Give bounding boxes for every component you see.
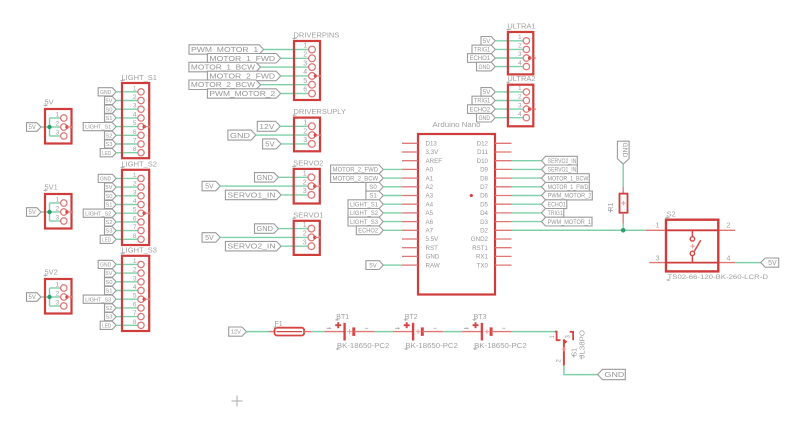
junction at P5V pin 2 bbox=[47, 125, 51, 129]
net flag PWM_MOTOR_2 at DRIVERPINS pin 6 bbox=[207, 89, 280, 98]
svg-text:S1: S1 bbox=[105, 289, 112, 295]
net flag MOTOR_2_BCW at DRIVERPINS pin 5 bbox=[189, 80, 261, 90]
wire GND to SERVO1 pin 1 bbox=[279, 228, 309, 230]
wires to LIGHT_S1 bbox=[116, 92, 138, 153]
wire Arduino D6 to PWM_MOTOR_2 bbox=[512, 195, 542, 197]
svg-text:4: 4 bbox=[727, 256, 731, 263]
svg-text:2: 2 bbox=[518, 43, 522, 50]
svg-text:1: 1 bbox=[656, 222, 660, 229]
svg-text:SERVO2: SERVO2 bbox=[293, 158, 323, 167]
svg-text:TRIG1: TRIG1 bbox=[474, 47, 491, 54]
svg-text:ECHO1: ECHO1 bbox=[548, 201, 567, 208]
net flag S3 at LIGHT_S2 pin 7 bbox=[105, 227, 117, 235]
net flag S1 at LIGHT_S1 pin 4 bbox=[105, 114, 117, 122]
net flag 5V at LIGHT_S3 pin 2 bbox=[105, 269, 117, 277]
junction at P5V2 pin 2 bbox=[47, 295, 51, 299]
connector P5V (5V) bbox=[44, 98, 74, 144]
svg-text:2: 2 bbox=[133, 267, 137, 274]
svg-text:8: 8 bbox=[133, 146, 137, 153]
net flag S2 at LIGHT_S1 pin 6 bbox=[105, 131, 117, 139]
net flag S2 at LIGHT_S3 pin 6 bbox=[105, 304, 117, 312]
net flag S0 at LIGHT_S1 pin 3 bbox=[105, 105, 117, 113]
svg-text:3: 3 bbox=[303, 188, 307, 195]
svg-text:LIGHT_S2: LIGHT_S2 bbox=[122, 160, 157, 169]
svg-text:D10: D10 bbox=[477, 158, 489, 165]
svg-text:S1: S1 bbox=[369, 193, 377, 200]
svg-text:5V2: 5V2 bbox=[45, 268, 58, 277]
svg-text:MOTOR_1_BCW: MOTOR_1_BCW bbox=[191, 65, 256, 72]
wire R1 to node A bbox=[622, 213, 624, 231]
svg-text:5V: 5V bbox=[483, 38, 491, 45]
wire BT1 to BT2 bbox=[375, 331, 393, 333]
svg-text:3: 3 bbox=[303, 239, 307, 246]
connector ULTRA2 bbox=[506, 74, 536, 126]
svg-text:1: 1 bbox=[133, 258, 137, 265]
svg-text:S2: S2 bbox=[667, 210, 676, 219]
svg-text:MOTOR_2_BCW: MOTOR_2_BCW bbox=[191, 82, 256, 89]
net flag MOTOR_2_FWD at DRIVERPINS pin 4 bbox=[207, 71, 280, 81]
svg-text:S3: S3 bbox=[105, 315, 112, 321]
net flag 5V at LIGHT_S2 pin 2 bbox=[105, 183, 117, 191]
svg-text:GND: GND bbox=[100, 177, 111, 183]
net flag GND at ULTRA2 pin 4 bbox=[477, 113, 496, 122]
net flag 5V at SERVO2 pin 2 bbox=[202, 181, 220, 191]
svg-text:LIGHT_S1: LIGHT_S1 bbox=[122, 73, 157, 82]
wire F1 to BT1 bbox=[311, 331, 325, 333]
net flag S1 at LIGHT_S3 pin 4 bbox=[105, 286, 117, 294]
battery BT3 (BK-18650-PC2) bbox=[462, 314, 527, 350]
svg-text:5V: 5V bbox=[45, 98, 54, 107]
svg-text:MOTOR_2_BCW: MOTOR_2_BCW bbox=[333, 175, 379, 182]
svg-text:LIGHT_S1: LIGHT_S1 bbox=[350, 201, 379, 208]
svg-text:3: 3 bbox=[133, 103, 137, 110]
svg-text:JL38PO: JL38PO bbox=[579, 329, 586, 358]
connector DRIVERSUPLY bbox=[293, 107, 346, 151]
net flag LIGHT_S3 at LIGHT_S3 pin 5 bbox=[83, 295, 116, 303]
net flag S3 at LIGHT_S3 pin 7 bbox=[105, 313, 117, 321]
net flag GND at LIGHT_S2 pin 1 bbox=[98, 174, 116, 182]
svg-text:S0: S0 bbox=[105, 107, 112, 113]
svg-text:D11: D11 bbox=[477, 149, 488, 156]
net flag S0 at LIGHT_S2 pin 3 bbox=[105, 192, 117, 200]
svg-text:SERVO1_IN: SERVO1_IN bbox=[548, 167, 577, 174]
svg-text:2: 2 bbox=[303, 128, 307, 135]
net flag TRIG1 at ULTRA2 pin 2 bbox=[472, 96, 495, 105]
power flag 5V for P5V1 bbox=[27, 208, 42, 217]
svg-text:ECHO1: ECHO1 bbox=[469, 55, 490, 62]
svg-text:GND: GND bbox=[605, 372, 625, 379]
svg-text:3: 3 bbox=[303, 60, 307, 67]
svg-text:5V: 5V bbox=[265, 140, 274, 149]
wire ECHO2 to ULTRA2 pin 3 bbox=[495, 108, 523, 110]
net flag PWM_MOTOR_1 at DRIVERPINS pin 1 bbox=[189, 45, 264, 54]
svg-text:7: 7 bbox=[133, 138, 137, 145]
svg-text:GND: GND bbox=[621, 142, 628, 157]
svg-text:TX0: TX0 bbox=[477, 262, 489, 269]
svg-text:D3: D3 bbox=[480, 219, 488, 226]
svg-text:2: 2 bbox=[56, 121, 60, 128]
svg-text:S2: S2 bbox=[105, 306, 112, 312]
svg-text:5.5V: 5.5V bbox=[426, 236, 440, 243]
svg-text:3: 3 bbox=[56, 215, 60, 222]
wire TRIG1 to ULTRA1 pin 2 bbox=[495, 48, 523, 50]
svg-text:RX1: RX1 bbox=[476, 254, 489, 261]
svg-text:1: 1 bbox=[303, 171, 307, 178]
svg-text:3: 3 bbox=[133, 189, 137, 196]
svg-text:BT3: BT3 bbox=[474, 314, 487, 321]
net flag ECHO2 at ULTRA2 pin 3 bbox=[468, 105, 496, 114]
svg-text:S0: S0 bbox=[369, 184, 377, 191]
wire LIGHT_S2 to Arduino A5 bbox=[383, 212, 402, 214]
svg-text:S2: S2 bbox=[105, 133, 112, 139]
connector ULTRA1 bbox=[506, 22, 536, 75]
svg-text:3: 3 bbox=[56, 130, 60, 137]
net flag LED at LIGHT_S3 pin 8 bbox=[100, 321, 116, 329]
wire 5V to Arduino RAW bbox=[383, 264, 402, 266]
svg-text:ULTRA2: ULTRA2 bbox=[507, 74, 535, 83]
net flag SERVO2_IN at SERVO1 pin 3 bbox=[225, 241, 281, 251]
wire GND to resistor R1 bbox=[622, 164, 624, 193]
svg-text:S2: S2 bbox=[105, 220, 112, 226]
net flag MOTOR_1_BCW at DRIVERPINS pin 3 bbox=[189, 62, 261, 72]
svg-text:LED: LED bbox=[102, 323, 111, 329]
wire Arduino D7 to MOTOR_1_FWD bbox=[512, 186, 542, 188]
net flag TRIG1 at ULTRA1 pin 2 bbox=[472, 45, 495, 54]
svg-text:TRIG1: TRIG1 bbox=[548, 210, 564, 217]
wire MOTOR_1_FWD to DRIVERPINS pin 2 bbox=[281, 57, 309, 59]
svg-text:5V: 5V bbox=[205, 235, 214, 242]
wire Arduino D5 to ECHO1 bbox=[512, 203, 542, 205]
svg-text:7: 7 bbox=[133, 310, 137, 317]
svg-text:SERVO2_IN: SERVO2_IN bbox=[227, 244, 275, 251]
svg-text:TRIG1: TRIG1 bbox=[474, 98, 491, 105]
svg-text:TS02-66-120-BK-260-LCR-D: TS02-66-120-BK-260-LCR-D bbox=[668, 274, 769, 281]
net flag MOTOR_1_FWD at Arduino D7 bbox=[541, 182, 589, 191]
svg-text:5V: 5V bbox=[105, 271, 112, 277]
svg-text:12V: 12V bbox=[259, 122, 274, 131]
svg-text:MOTOR_1_FWD: MOTOR_1_FWD bbox=[548, 184, 589, 191]
wire 12V to fuse F1 bbox=[247, 331, 270, 333]
svg-text:5V: 5V bbox=[105, 99, 112, 105]
svg-text:4: 4 bbox=[518, 111, 522, 118]
svg-text:GND: GND bbox=[230, 131, 251, 140]
net flag LIGHT_S2 at LIGHT_S2 pin 5 bbox=[83, 209, 116, 217]
svg-text:DRIVERPINS: DRIVERPINS bbox=[294, 31, 340, 40]
svg-text:LED: LED bbox=[102, 237, 111, 243]
svg-text:D6: D6 bbox=[480, 193, 488, 200]
svg-text:GND: GND bbox=[257, 175, 273, 182]
svg-text:3: 3 bbox=[656, 256, 660, 263]
svg-text:A6: A6 bbox=[426, 219, 434, 226]
wire Arduino D8 to MOTOR_1_BCW bbox=[512, 177, 542, 179]
wire Arduino D2 to node A bbox=[512, 229, 647, 231]
net flag GND at SERVO1 pin 1 bbox=[255, 224, 279, 234]
resistor R1 bbox=[608, 194, 628, 213]
svg-text:3: 3 bbox=[56, 300, 60, 307]
wire S0 to Arduino A2 bbox=[383, 186, 402, 188]
wire PWM_MOTOR_2 to DRIVERPINS pin 6 bbox=[281, 93, 309, 95]
net flag SERVO1_IN at Arduino D9 bbox=[541, 165, 577, 174]
svg-text:8: 8 bbox=[133, 319, 137, 326]
wire LIGHT_S3 to Arduino A6 bbox=[383, 221, 402, 223]
svg-text:4: 4 bbox=[518, 60, 522, 67]
connector LIGHT_S2 bbox=[121, 160, 157, 245]
svg-text:4: 4 bbox=[133, 111, 137, 118]
svg-text:S0: S0 bbox=[105, 280, 112, 286]
wires to LIGHT_S3 bbox=[116, 264, 138, 325]
svg-text:SERVO1: SERVO1 bbox=[293, 210, 323, 219]
wire MOTOR_1_BCW to DRIVERPINS pin 3 bbox=[261, 66, 309, 68]
svg-text:D8: D8 bbox=[480, 175, 488, 182]
net flag LIGHT_S1 at LIGHT_S1 pin 5 bbox=[83, 123, 116, 131]
net flag ECHO1 at Arduino D5 bbox=[541, 200, 566, 209]
net flag 5V at LIGHT_S1 pin 2 bbox=[105, 96, 117, 104]
svg-text:D9: D9 bbox=[480, 167, 488, 174]
wire 12V to DRIVERSUPLY pin 1 bbox=[280, 125, 308, 127]
svg-text:LED: LED bbox=[102, 151, 111, 157]
svg-text:2: 2 bbox=[303, 179, 307, 186]
wire SERVO2_IN to SERVO1 pin 3 bbox=[281, 245, 308, 247]
wire PWM_MOTOR_1 to DRIVERPINS pin 1 bbox=[264, 49, 309, 51]
net flag SERVO2_IN at Arduino D10 bbox=[541, 156, 577, 165]
svg-text:1: 1 bbox=[518, 34, 522, 41]
svg-text:5: 5 bbox=[133, 120, 137, 127]
net flag PWM_MOTOR_2 at Arduino D6 bbox=[541, 191, 592, 200]
net flag LIGHT_S3 at Arduino A6 bbox=[348, 217, 383, 226]
wire ECHO2 to Arduino A7 bbox=[383, 229, 402, 231]
svg-text:4: 4 bbox=[303, 69, 307, 76]
svg-text:5V: 5V bbox=[205, 184, 214, 191]
wire 5V to ULTRA2 pin 1 bbox=[495, 91, 523, 93]
net flag PWM_MOTOR_1 at Arduino D3 bbox=[541, 217, 592, 226]
svg-text:5: 5 bbox=[133, 293, 137, 300]
svg-text:S3: S3 bbox=[105, 229, 112, 235]
wires to LIGHT_S2 bbox=[116, 178, 138, 239]
wire BT3 to switch S1 bbox=[512, 331, 555, 333]
net flag S0 at LIGHT_S3 pin 3 bbox=[105, 278, 117, 286]
op-amp U1 Arduino Nano bbox=[402, 120, 512, 295]
wires to P5V1 bbox=[41, 203, 61, 221]
svg-text:BT2: BT2 bbox=[405, 314, 418, 321]
svg-text:LIGHT_S3: LIGHT_S3 bbox=[122, 246, 157, 255]
svg-text:SERVO1_IN: SERVO1_IN bbox=[227, 192, 275, 199]
connector SERVO2 bbox=[292, 158, 323, 203]
wire 5V to DRIVERSUPLY pin 3 bbox=[281, 143, 309, 145]
svg-text:LIGHT_S2: LIGHT_S2 bbox=[85, 211, 111, 217]
connector P5V1 (5V1) bbox=[44, 183, 74, 229]
power flag 5V for P5V2 bbox=[27, 293, 42, 302]
svg-text:2: 2 bbox=[727, 222, 731, 229]
wire ECHO1 to ULTRA1 pin 3 bbox=[495, 57, 523, 59]
wire GND to DRIVERSUPLY pin 2 bbox=[256, 134, 309, 136]
svg-text:A4: A4 bbox=[426, 201, 434, 208]
svg-text:GND: GND bbox=[100, 90, 111, 96]
net flag 5V at SERVO1 pin 2 bbox=[202, 233, 220, 243]
net flag GND at LIGHT_S3 pin 1 bbox=[98, 260, 116, 268]
svg-text:S1: S1 bbox=[571, 348, 578, 357]
svg-text:5V: 5V bbox=[105, 185, 112, 191]
svg-text:7: 7 bbox=[133, 224, 137, 231]
svg-text:D5: D5 bbox=[480, 201, 488, 208]
svg-text:6: 6 bbox=[133, 301, 137, 308]
svg-text:2: 2 bbox=[133, 181, 137, 188]
net flag S0 at Arduino A2 bbox=[366, 182, 383, 191]
svg-text:MOTOR_2_FWD: MOTOR_2_FWD bbox=[209, 73, 275, 80]
net flag LIGHT_S1 at Arduino A4 bbox=[348, 200, 383, 209]
svg-text:RAW: RAW bbox=[426, 262, 440, 269]
svg-text:GND: GND bbox=[257, 226, 273, 233]
svg-text:2: 2 bbox=[56, 206, 60, 213]
junction node A (D2 net) bbox=[621, 228, 626, 233]
svg-text:BK-18650-PC2: BK-18650-PC2 bbox=[405, 343, 458, 350]
svg-text:5V: 5V bbox=[483, 89, 491, 96]
svg-text:1: 1 bbox=[303, 43, 307, 50]
svg-text:ULTRA1: ULTRA1 bbox=[507, 22, 535, 31]
svg-text:12V: 12V bbox=[231, 330, 242, 336]
svg-text:GND: GND bbox=[426, 254, 440, 261]
power flag 5V at S2 pin 4 bbox=[761, 258, 779, 267]
net flag MOTOR_2_BCW at Arduino A1 bbox=[331, 174, 384, 183]
svg-text:2: 2 bbox=[518, 94, 522, 101]
svg-text:GND2: GND2 bbox=[471, 236, 489, 243]
net flag MOTOR_1_FWD at DRIVERPINS pin 2 bbox=[207, 54, 280, 64]
wire Arduino D3 to PWM_MOTOR_1 bbox=[512, 221, 542, 223]
wire S1 pin 2 to GND bbox=[564, 366, 598, 375]
svg-text:5V: 5V bbox=[29, 210, 36, 216]
svg-text:BK-18650-PC2: BK-18650-PC2 bbox=[474, 343, 527, 350]
net flag S1 at LIGHT_S2 pin 4 bbox=[105, 200, 117, 208]
svg-text:GND: GND bbox=[478, 64, 490, 71]
svg-text:5V: 5V bbox=[29, 295, 36, 301]
svg-text:A2: A2 bbox=[426, 184, 434, 191]
wire Arduino D4 to TRIG1 bbox=[512, 212, 542, 214]
svg-text:1: 1 bbox=[518, 85, 522, 92]
svg-text:Arduino Nano: Arduino Nano bbox=[433, 120, 481, 129]
wire S1 to Arduino A3 bbox=[383, 195, 402, 197]
svg-text:6: 6 bbox=[133, 215, 137, 222]
svg-text:LIGHT_S3: LIGHT_S3 bbox=[85, 297, 111, 303]
net flag GND at ULTRA1 pin 4 bbox=[477, 62, 496, 71]
svg-text:4: 4 bbox=[133, 198, 137, 205]
svg-text:DRIVERSUPLY: DRIVERSUPLY bbox=[294, 107, 346, 116]
svg-text:D4: D4 bbox=[480, 210, 488, 217]
svg-text:D12: D12 bbox=[477, 141, 489, 148]
svg-text:BT1: BT1 bbox=[336, 314, 349, 321]
connector SERVO1 bbox=[292, 210, 323, 255]
svg-text:AREF: AREF bbox=[426, 158, 443, 165]
svg-text:3: 3 bbox=[518, 51, 522, 58]
net flag 5V at ULTRA2 pin 1 bbox=[481, 88, 495, 97]
net flag LED at LIGHT_S2 pin 8 bbox=[100, 235, 116, 243]
net flag LIGHT_S2 at Arduino A5 bbox=[348, 209, 383, 218]
wire 5V to SERVO1 pin 2 bbox=[220, 236, 308, 238]
svg-text:1: 1 bbox=[56, 282, 60, 289]
svg-text:BK-18650-PC2: BK-18650-PC2 bbox=[337, 343, 390, 350]
svg-text:PWM_MOTOR_1: PWM_MOTOR_1 bbox=[548, 219, 592, 226]
wire MOTOR_2_FWD to Arduino A0 bbox=[383, 168, 402, 170]
svg-text:D7: D7 bbox=[480, 184, 488, 191]
wire TRIG1 to ULTRA2 pin 2 bbox=[495, 100, 523, 102]
svg-text:3: 3 bbox=[133, 275, 137, 282]
svg-text:5V: 5V bbox=[29, 125, 36, 131]
svg-text:ECHO2: ECHO2 bbox=[469, 106, 490, 113]
net flag MOTOR_2_FWD at Arduino A0 bbox=[331, 165, 384, 174]
wire LIGHT_S1 to Arduino A4 bbox=[383, 203, 402, 205]
net flag 12V at DRIVERSUPLY pin 1 bbox=[257, 121, 280, 131]
wire BT2 to BT3 bbox=[443, 331, 462, 333]
connector LIGHT_S1 bbox=[121, 73, 157, 158]
connector LIGHT_S3 bbox=[121, 246, 157, 331]
svg-text:A7: A7 bbox=[426, 228, 434, 235]
svg-text:A1: A1 bbox=[426, 175, 434, 182]
svg-text:PWM_MOTOR_2: PWM_MOTOR_2 bbox=[209, 91, 275, 98]
ground symbol GND at S1 bbox=[598, 369, 626, 379]
wire GND to ULTRA2 pin 4 bbox=[495, 117, 523, 119]
net flag GND at LIGHT_S1 pin 1 bbox=[98, 88, 116, 96]
net flag S3 at LIGHT_S1 pin 7 bbox=[105, 140, 117, 148]
net flag S1 at Arduino A3 bbox=[366, 191, 383, 200]
net flag MOTOR_1_BCW at Arduino D8 bbox=[541, 174, 589, 183]
wire SERVO1_IN to SERVO2 pin 3 bbox=[281, 194, 308, 196]
wires to P5V2 bbox=[41, 288, 61, 306]
svg-text:LIGHT_S1: LIGHT_S1 bbox=[85, 125, 111, 131]
net flag GND at SERVO2 pin 1 bbox=[255, 173, 279, 183]
svg-text:A0: A0 bbox=[426, 167, 434, 174]
wire MOTOR_2_BCW to Arduino A1 bbox=[383, 177, 402, 179]
svg-text:2: 2 bbox=[56, 291, 60, 298]
svg-text:2: 2 bbox=[303, 231, 307, 238]
junction at P5V1 pin 2 bbox=[47, 210, 51, 214]
svg-text:A3: A3 bbox=[426, 193, 434, 200]
svg-text:S0: S0 bbox=[105, 194, 112, 200]
svg-text:6: 6 bbox=[303, 87, 307, 94]
svg-text:5V1: 5V1 bbox=[45, 183, 58, 192]
svg-text:5V: 5V bbox=[369, 262, 377, 269]
svg-text:LIGHT_S2: LIGHT_S2 bbox=[350, 210, 379, 217]
wires to P5V bbox=[41, 118, 61, 136]
svg-text:5: 5 bbox=[303, 78, 307, 85]
svg-text:RST: RST bbox=[426, 245, 439, 252]
svg-text:6: 6 bbox=[133, 129, 137, 136]
svg-text:1: 1 bbox=[303, 120, 307, 127]
net flag 5V at Arduino RAW bbox=[366, 261, 383, 270]
wire Arduino D10 to SERVO2_IN bbox=[512, 160, 542, 162]
svg-text:LIGHT_S3: LIGHT_S3 bbox=[350, 219, 379, 226]
switch S2 bbox=[646, 210, 768, 282]
wire GND to SERVO2 pin 1 bbox=[279, 176, 309, 178]
svg-text:3.3V: 3.3V bbox=[426, 149, 440, 156]
net flag S2 at LIGHT_S2 pin 6 bbox=[105, 218, 117, 226]
svg-text:8: 8 bbox=[133, 233, 137, 240]
svg-text:MOTOR_2_FWD: MOTOR_2_FWD bbox=[333, 167, 379, 174]
svg-text:RST1: RST1 bbox=[472, 245, 488, 252]
wire S2 pin 4 to 5V bbox=[735, 262, 761, 264]
svg-text:5: 5 bbox=[133, 207, 137, 214]
svg-text:F1: F1 bbox=[275, 321, 283, 328]
svg-text:1: 1 bbox=[133, 85, 137, 92]
svg-text:PWM_MOTOR_2: PWM_MOTOR_2 bbox=[548, 193, 592, 200]
svg-text:1: 1 bbox=[56, 112, 60, 119]
svg-text:S3: S3 bbox=[105, 142, 112, 148]
connector P5V2 (5V2) bbox=[44, 268, 74, 314]
power flag 12V (battery input) bbox=[229, 327, 247, 336]
svg-text:S1: S1 bbox=[105, 203, 112, 209]
battery BT2 (BK-18650-PC2) bbox=[393, 314, 458, 350]
svg-text:GND: GND bbox=[100, 263, 111, 269]
battery BT1 (BK-18650-PC2) bbox=[325, 314, 390, 350]
svg-text:1: 1 bbox=[303, 222, 307, 229]
svg-text:2: 2 bbox=[133, 94, 137, 101]
